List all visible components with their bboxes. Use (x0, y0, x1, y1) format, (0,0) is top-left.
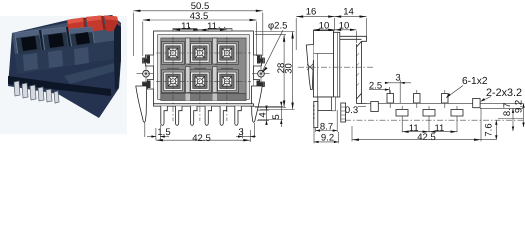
body base mass (8, 15, 121, 118)
pad low 2 (423, 110, 435, 117)
dimension 8.7 side (316, 110, 338, 132)
svg-text:42.5: 42.5 (417, 132, 436, 143)
svg-text:5: 5 (271, 114, 282, 119)
dimension 0.3 (345, 105, 366, 116)
dimension 3 bottom (236, 127, 256, 138)
mid strip marks (167, 67, 233, 69)
dimension 5 (250, 102, 283, 127)
svg-text:11: 11 (207, 21, 217, 32)
red button 3 (104, 16, 120, 32)
svg-text:7.6: 7.6 (484, 123, 495, 136)
pad big left (371, 102, 379, 112)
bottom dark band (161, 94, 246, 101)
red button 2 (86, 16, 104, 33)
dimension 43.5 (143, 11, 257, 56)
dimension 8.7 fp (480, 103, 523, 131)
side view main body (313, 31, 333, 97)
dimension 9.2 fp (514, 100, 525, 127)
left leg (136, 86, 147, 122)
dimension 16 14 (296, 6, 366, 50)
lower dark rail (8, 76, 111, 96)
button cells row 2 (162, 70, 239, 93)
left wing with hole (137, 55, 156, 89)
dark button 2 (42, 27, 69, 52)
svg-text:3: 3 (395, 72, 400, 83)
dimension 2.5 fp (369, 81, 390, 95)
centerline (298, 66, 374, 68)
flange highlight (64, 62, 119, 84)
dimension 11 11 (173, 21, 227, 32)
dimension 7.6 fp (484, 120, 498, 140)
pad big right (473, 98, 480, 107)
construction verticals (390, 90, 457, 132)
dimension 30 (255, 32, 295, 110)
svg-text:φ2.5: φ2.5 (268, 21, 287, 32)
top hook ledge (340, 36, 367, 41)
front view body outer frame (154, 31, 254, 104)
svg-text:8.7: 8.7 (502, 103, 513, 116)
dimension 50.5 (133, 1, 262, 56)
svg-text:11: 11 (181, 21, 191, 32)
label 2-2x3.2 (480, 87, 522, 102)
pins front view (161, 106, 242, 125)
top tabs (173, 27, 232, 31)
pad small 2 (414, 94, 421, 104)
side view right block (334, 32, 340, 97)
dimension 10 10 (313, 21, 356, 43)
dimension 42.5 bottom (156, 130, 250, 144)
crosshair centerlines through columns (156, 37, 251, 121)
product photo: speaker terminal block (0, 15, 127, 134)
front sockets (23, 53, 38, 71)
panel plate (357, 41, 367, 103)
pad small 3 (442, 94, 449, 104)
right leg (251, 86, 262, 122)
svg-text:14: 14 (343, 6, 354, 17)
pad low 3 (451, 110, 463, 117)
dimension 3 fp (385, 72, 411, 103)
svg-text:11: 11 (434, 123, 444, 134)
button cells row 1 (162, 42, 239, 65)
pad low 1 (396, 110, 408, 117)
svg-text:6-1x2: 6-1x2 (462, 76, 488, 87)
dimension 11 11 fp (402, 123, 457, 134)
dimension 1.5 (147, 125, 171, 140)
front face (15, 40, 119, 74)
pad small 1 (387, 94, 394, 104)
label 6-1x2 (446, 76, 488, 98)
side view bottom block (318, 97, 332, 111)
svg-text:16: 16 (306, 6, 317, 17)
barbed pin (313, 101, 318, 127)
pins (14, 81, 59, 103)
dimension dia 2.5 leader (262, 21, 288, 74)
right wing with hole (252, 55, 271, 89)
top deck (12, 16, 121, 54)
right end cap (114, 24, 121, 91)
svg-text:4: 4 (258, 112, 269, 117)
svg-text:42.5: 42.5 (192, 133, 211, 144)
right pin (341, 103, 346, 122)
svg-text:0.3: 0.3 (345, 105, 358, 116)
red button 1 (67, 18, 85, 35)
dimension 4 (257, 106, 269, 125)
svg-text:2-2x3.2: 2-2x3.2 (486, 87, 522, 99)
lever (306, 45, 313, 90)
dimension 42.5 fp (352, 108, 496, 143)
bottom plate (154, 104, 254, 106)
photo background tint (0, 16, 127, 134)
footprint base line (366, 102, 523, 104)
dark button 1 (15, 30, 42, 55)
white divider bars (186, 38, 218, 93)
dimension 28 (255, 35, 287, 108)
dimension 9.2 side (314, 128, 338, 144)
footprint centerline (345, 119, 523, 121)
dark button 3 (69, 27, 95, 49)
